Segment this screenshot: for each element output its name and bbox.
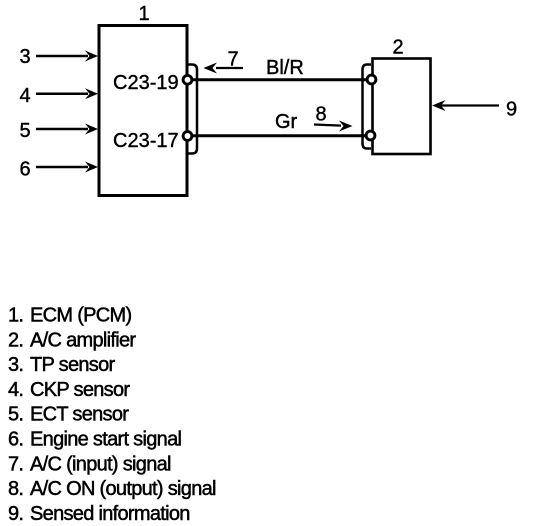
svg-text:9.: 9. [8, 503, 23, 525]
svg-text:TP sensor: TP sensor [30, 354, 116, 376]
legend [8, 305, 216, 525]
svg-text:3.: 3. [8, 354, 23, 376]
svg-text:Gr: Gr [275, 111, 298, 133]
input arrow 3 [19, 46, 98, 68]
connector bracket on box 1 [188, 65, 197, 154]
svg-text:3: 3 [19, 46, 30, 68]
svg-text:A/C (input) signal: A/C (input) signal [30, 453, 171, 475]
svg-text:Sensed information: Sensed information [30, 503, 190, 525]
wire Bl/R (top) [190, 78, 369, 81]
svg-text:5.: 5. [8, 404, 23, 426]
terminal circle box2 bottom [366, 131, 375, 140]
svg-text:C23-19: C23-19 [113, 72, 179, 94]
svg-text:Bl/R: Bl/R [266, 57, 304, 79]
terminal circle C23-19 [183, 75, 192, 84]
svg-text:7.: 7. [8, 453, 23, 475]
svg-text:A/C ON (output) signal: A/C ON (output) signal [30, 478, 216, 500]
connector bracket on box 2 [363, 65, 372, 149]
svg-text:1.: 1. [8, 305, 23, 327]
input arrow 4 [19, 85, 98, 107]
wire Gr (bottom) [190, 134, 369, 137]
input arrow 5 [19, 120, 98, 142]
svg-text:4: 4 [19, 85, 30, 107]
svg-text:2: 2 [392, 37, 403, 59]
svg-text:6.: 6. [8, 429, 23, 451]
svg-text:2.: 2. [8, 329, 23, 351]
svg-text:C23-17: C23-17 [113, 130, 179, 152]
svg-text:Engine start signal: Engine start signal [30, 429, 181, 451]
input arrow 6 [19, 159, 98, 181]
terminal circle box2 top [367, 75, 376, 84]
sensed info arrow 9 [432, 99, 517, 121]
svg-text:9: 9 [506, 99, 517, 121]
svg-text:8: 8 [315, 104, 326, 126]
svg-text:8.: 8. [8, 478, 23, 500]
A/C amplifier box 2 [373, 59, 431, 155]
signal arrow 8 [314, 104, 353, 132]
svg-text:A/C amplifier: A/C amplifier [30, 329, 136, 351]
signal arrow 7 [204, 48, 244, 73]
svg-text:ECM (PCM): ECM (PCM) [30, 305, 132, 327]
svg-text:4.: 4. [8, 379, 23, 401]
svg-text:ECT sensor: ECT sensor [30, 404, 129, 426]
svg-text:5: 5 [19, 120, 30, 142]
svg-text:CKP sensor: CKP sensor [30, 379, 130, 401]
svg-text:6: 6 [19, 159, 30, 181]
ECM box 1 [99, 26, 187, 196]
svg-text:1: 1 [138, 3, 149, 25]
terminal circle C23-17 [183, 132, 192, 141]
